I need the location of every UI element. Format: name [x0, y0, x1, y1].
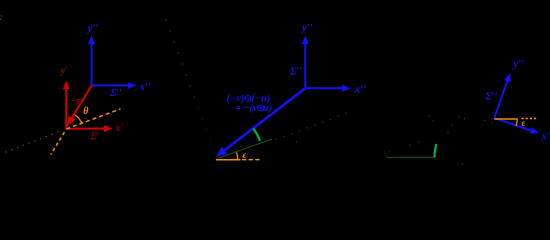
- specks: [0, 15, 2, 20]
- mid x-axis label: [354, 84, 367, 96]
- svg-text:y′′: y′′: [300, 22, 313, 34]
- formula line 1: [226, 94, 270, 105]
- formula line 2: [234, 103, 272, 114]
- svg-text:Σ′′: Σ′′: [485, 92, 498, 103]
- label eps right: [522, 119, 526, 129]
- right x-axis label: [541, 132, 550, 143]
- left red x-axis: [66, 125, 112, 132]
- svg-text:u): u): [263, 103, 272, 114]
- red frame label: [89, 132, 99, 143]
- svg-text:−u: −u: [70, 96, 82, 107]
- right frame y-axis: [494, 73, 510, 118]
- velocity -u arrow: [67, 86, 92, 127]
- mid y-axis label: [300, 22, 313, 34]
- faint dots right: [389, 116, 492, 165]
- resultant direction line: [217, 139, 272, 159]
- svg-text:Σ′′: Σ′′: [109, 88, 122, 99]
- svg-text:Σ′: Σ′: [89, 132, 99, 143]
- red y-axis label: [60, 66, 68, 77]
- mid frame label: [289, 67, 302, 78]
- svg-text:x′: x′: [114, 123, 123, 134]
- right y-axis label: [511, 58, 524, 70]
- mid frame y-axis: [302, 36, 309, 89]
- label eps mid: [242, 151, 246, 161]
- svg-text:ε: ε: [522, 119, 526, 129]
- svg-text:x′′: x′′: [541, 132, 550, 143]
- dashed line extension left: [5, 132, 58, 153]
- svg-text:y′′: y′′: [85, 23, 98, 35]
- x direction line: [216, 159, 241, 161]
- label theta: [83, 106, 89, 117]
- dashed boost direction line: [66, 109, 120, 129]
- angle arc green: [253, 129, 260, 141]
- left red y-axis: [63, 81, 70, 130]
- right angle eps arc: [516, 119, 517, 126]
- svg-text:Σ′′: Σ′′: [289, 67, 302, 78]
- x direction dashes: [242, 159, 260, 161]
- mid frame x-axis: [305, 85, 350, 92]
- left frame x-axis: [92, 82, 137, 89]
- label -u: [70, 96, 82, 107]
- left x-axis label: [139, 81, 152, 93]
- svg-text:x′′: x′′: [354, 84, 367, 96]
- dashed -u extension: [51, 132, 65, 154]
- svg-text:ε: ε: [242, 151, 246, 161]
- green reference line: [387, 156, 436, 158]
- right x direction dashes: [522, 117, 538, 119]
- left frame y-axis: [88, 36, 95, 86]
- faint construction line steep: [165, 19, 215, 152]
- right x direction line: [494, 118, 517, 120]
- green angle arc right: [435, 144, 437, 157]
- angle theta arc: [75, 115, 82, 124]
- red x-axis label: [114, 123, 123, 134]
- angle eps arc: [237, 152, 238, 159]
- svg-text:= −(v: = −(v: [234, 103, 257, 114]
- right frame x-axis: [494, 118, 539, 134]
- faint construction line shallow: [275, 113, 346, 143]
- svg-text:y′: y′: [60, 66, 68, 77]
- left y-axis label: [85, 23, 98, 35]
- svg-text:y′′: y′′: [511, 58, 524, 70]
- svg-text:x′′: x′′: [139, 81, 152, 93]
- left frame label: [109, 88, 122, 99]
- composite velocity arrow: [216, 88, 305, 157]
- right frame label: [485, 92, 498, 103]
- svg-text:θ: θ: [83, 106, 89, 117]
